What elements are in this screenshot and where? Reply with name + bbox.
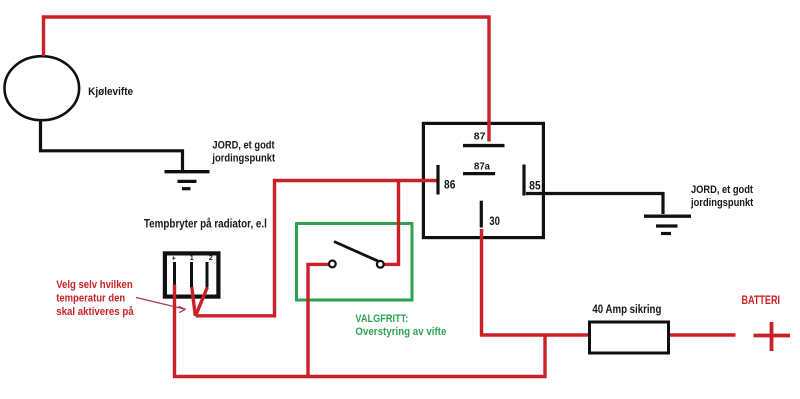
temp switch terminal 1 — [190, 253, 194, 287]
svg-text:JORD, et godt: JORD, et godt — [691, 184, 753, 196]
fuse F1 body — [590, 322, 669, 353]
svg-text:1: 1 — [190, 253, 194, 262]
override switch S2 right contact — [377, 261, 384, 268]
battery positive terminal symbol — [754, 322, 791, 351]
ground symbol (right) — [644, 216, 691, 233]
svg-text:Kjølevifte: Kjølevifte — [88, 86, 133, 98]
svg-text:jordingspunkt: jordingspunkt — [690, 197, 753, 209]
relay pin 85 — [524, 165, 541, 196]
temp switch terminal 2 — [207, 253, 213, 287]
override switch S2 lever — [334, 242, 379, 262]
svg-text:87: 87 — [474, 131, 486, 143]
relay pin 30 — [481, 201, 500, 228]
svg-text:Tempbryter på radiator, e.l: Tempbryter på radiator, e.l — [144, 219, 267, 231]
label: VALGFRITT: Overstyring av vifte (green) — [355, 313, 446, 338]
wire: bottom bus to override switch left terminal (red) — [308, 264, 329, 375]
fan motor M1 (Kjolevifte) — [5, 56, 80, 120]
wire: relay pin 87 to fan motor (red top bus) — [44, 17, 490, 142]
svg-text:temperatur den: temperatur den — [56, 292, 125, 304]
optional override box (green) — [297, 224, 413, 301]
svg-text:86: 86 — [444, 180, 455, 192]
svg-text:jordingspunkt: jordingspunkt — [212, 153, 276, 165]
label: JORD, et godt jordingspunkt (left) — [212, 140, 276, 165]
svg-text:87a: 87a — [474, 161, 490, 173]
svg-text:BATTERI: BATTERI — [742, 295, 781, 307]
ground symbol (left, under fan) — [165, 172, 210, 189]
wire: relay pin 30 to fuse (red) — [482, 229, 589, 335]
relay pin 87 — [463, 131, 505, 146]
wire: override switch right terminal to pin-86 wire (red) — [384, 179, 399, 264]
note: Velg selv hvilken temperatur den skal aktiveres pa (red) — [56, 279, 134, 318]
annotation arrow from note to junction — [136, 298, 186, 313]
wire: temp switch pin 2 to junction (red) — [196, 288, 207, 316]
svg-text:+: + — [172, 253, 176, 262]
svg-text:40 Amp sikring: 40 Amp sikring — [592, 304, 661, 316]
relay pin 86 — [438, 165, 455, 195]
svg-text:JORD, et godt: JORD, et godt — [212, 140, 274, 152]
svg-text:2: 2 — [209, 253, 213, 262]
wire: temp switch pin 1 to junction (red) — [192, 287, 196, 316]
relay K1 body — [423, 123, 543, 237]
wire: relay pin 85 to right ground (black) — [526, 194, 663, 215]
svg-text:skal aktiveres på: skal aktiveres på — [56, 306, 134, 318]
svg-text:85: 85 — [529, 180, 541, 192]
override switch S2 left contact — [329, 261, 336, 268]
svg-text:30: 30 — [489, 216, 500, 228]
wire: bottom supply bus (red) — [173, 335, 545, 377]
wire: temp switch + terminal to bottom bus (red) — [173, 285, 176, 377]
svg-text:Overstyring av vifte: Overstyring av vifte — [355, 326, 446, 338]
temp switch terminal + — [172, 253, 176, 287]
label: JORD, et godt jordingspunkt (right) — [690, 184, 753, 209]
relay pin 87a — [463, 161, 495, 174]
wire: fan motor to left ground (black) — [41, 120, 183, 171]
wire: fuse to battery (red) — [670, 333, 736, 336]
svg-text:VALGFRITT:: VALGFRITT: — [355, 313, 408, 325]
svg-text:Velg selv hvilken: Velg selv hvilken — [56, 279, 133, 291]
wire: temp switch junction to relay pin 86 (red) — [196, 181, 437, 316]
temp switch S1 body — [165, 253, 219, 296]
